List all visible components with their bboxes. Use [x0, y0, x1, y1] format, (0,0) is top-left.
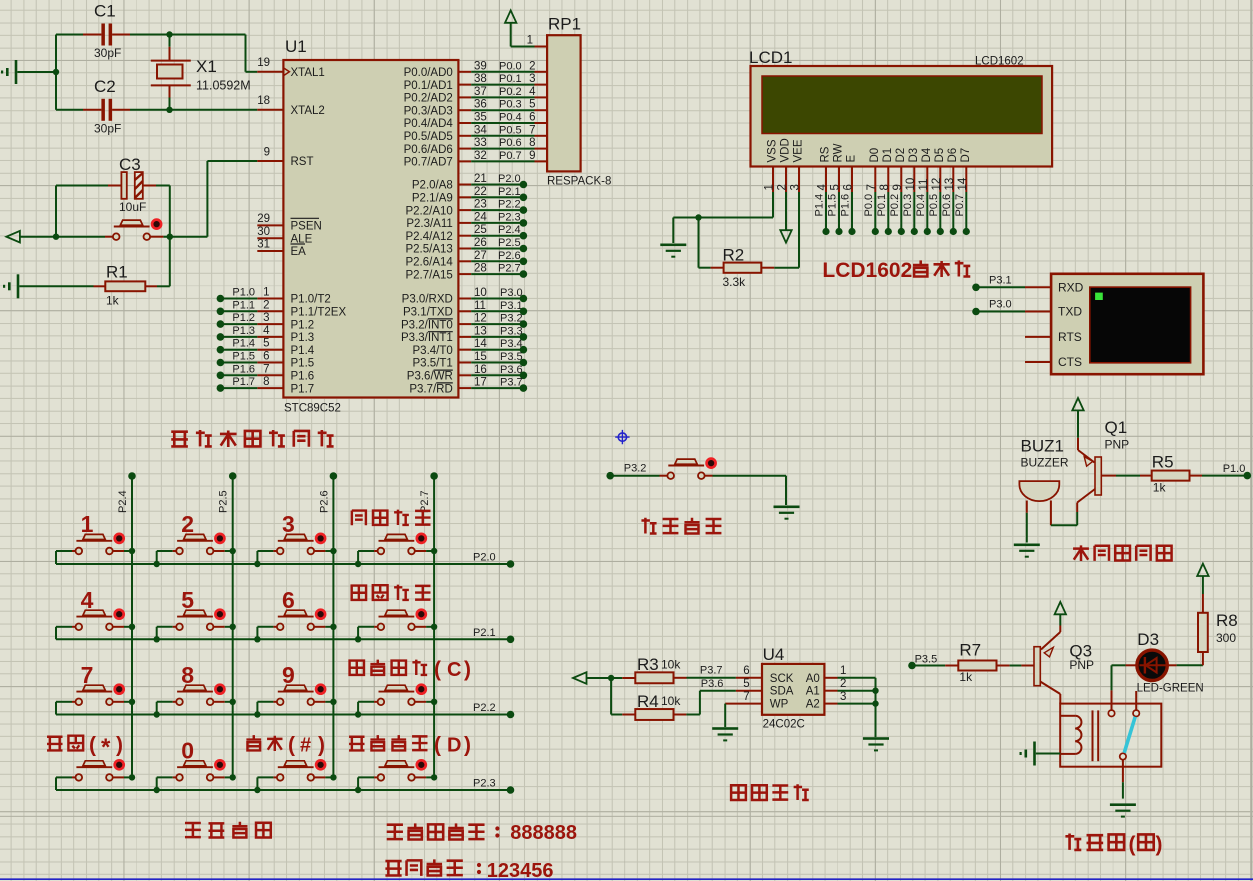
svg-text:7: 7 [866, 184, 878, 190]
svg-text:RW: RW [833, 143, 845, 162]
node button/column r2c4 [431, 624, 437, 630]
pin 7 P1.6 [220, 363, 314, 382]
svg-text:10uF: 10uF [119, 200, 146, 214]
svg-text:P1.5: P1.5 [232, 351, 255, 363]
node P3.0 [520, 295, 528, 303]
pin 1 P1.0 [220, 287, 330, 306]
svg-text:P1.7: P1.7 [232, 376, 255, 388]
svg-text:3.3k: 3.3k [723, 275, 747, 289]
svg-text:RTS: RTS [1058, 330, 1082, 344]
svg-text:P1.4: P1.4 [291, 345, 315, 357]
power (VDD down arrow) [780, 230, 791, 242]
svg-text:P0.7/AD7: P0.7/AD7 [404, 157, 453, 169]
ground (LCD VSS) [660, 244, 686, 247]
svg-text:2: 2 [529, 60, 535, 72]
node drop/bus r2c2 [154, 636, 160, 642]
node P2.2 [520, 206, 528, 214]
svg-text:5: 5 [743, 678, 749, 690]
svg-text:P2.1: P2.1 [473, 627, 496, 639]
svg-text:E: E [846, 155, 858, 163]
svg-text:U4: U4 [763, 645, 785, 664]
node P1.5 [835, 228, 842, 235]
node drop/bus r3c4 [355, 711, 361, 717]
svg-text:P3.2/INT0: P3.2/INT0 [401, 319, 453, 331]
svg-text:CTS: CTS [1058, 355, 1082, 369]
svg-text:17: 17 [474, 377, 487, 389]
svg-text:37: 37 [474, 86, 487, 98]
push button (reset) [105, 220, 163, 240]
svg-text:(: ( [434, 658, 441, 681]
svg-text:P1.3: P1.3 [291, 332, 315, 344]
svg-text:16: 16 [474, 364, 487, 376]
svg-text:D6: D6 [947, 148, 959, 163]
svg-text:38: 38 [474, 73, 487, 85]
wire P3.0 to TXD [976, 311, 1025, 313]
clock mark XTAL1 [283, 68, 289, 76]
svg-text:10: 10 [474, 287, 487, 299]
node button/column r2c1 [129, 624, 135, 630]
pin 31 EA [257, 239, 306, 259]
svg-text:30pF: 30pF [94, 46, 121, 60]
svg-text:P0.5/AD5: P0.5/AD5 [404, 131, 453, 143]
svg-text:P3.0/RXD: P3.0/RXD [402, 294, 453, 306]
svg-text:P1.5: P1.5 [291, 358, 315, 370]
resistor pack RP1 RESPACK-8 [547, 35, 581, 171]
wire P0.6 (LCD) [952, 192, 954, 232]
svg-text:19: 19 [257, 57, 270, 69]
wire D3 to R8 [1177, 664, 1203, 666]
pin 2 P1.1 [220, 299, 346, 318]
node button/column r2c3 [330, 624, 336, 630]
wire WP to gnd [724, 704, 726, 727]
svg-text:25: 25 [474, 224, 487, 236]
svg-text:(: ( [1129, 833, 1136, 856]
svg-text:9: 9 [282, 662, 295, 688]
node P2.3 [520, 219, 528, 227]
svg-text:15: 15 [474, 351, 487, 363]
svg-text:2: 2 [263, 299, 269, 311]
node P0.6 [950, 228, 957, 235]
wire C2 left [56, 109, 83, 111]
pin 38 P0.1 [404, 73, 548, 92]
node button right [167, 234, 173, 240]
svg-text:14: 14 [957, 177, 969, 190]
pin 8 D1 (LCD) [879, 148, 894, 192]
pin 15 P3.5 [413, 351, 524, 370]
ground (relay coil) [1033, 742, 1036, 766]
svg-text:P1.6: P1.6 [291, 371, 315, 383]
svg-text:EA: EA [291, 246, 307, 258]
svg-text:P2.3: P2.3 [473, 778, 496, 790]
svg-text:A1: A1 [806, 686, 820, 698]
node drop/bus r4c3 [254, 787, 260, 793]
svg-text:X1: X1 [196, 57, 217, 76]
wire R2 branch [698, 218, 700, 268]
svg-text:9: 9 [529, 150, 535, 162]
node P2.6 [520, 258, 528, 266]
svg-text:P2.0: P2.0 [498, 173, 521, 185]
led D3 LED-GREEN [1112, 630, 1204, 710]
svg-text:R1: R1 [106, 263, 128, 282]
label 矩阵键盘 [185, 822, 271, 838]
svg-text:14: 14 [474, 338, 487, 350]
svg-text:RXD: RXD [1058, 281, 1084, 295]
pin 6 P1.5 [220, 351, 314, 370]
svg-text:1: 1 [527, 35, 533, 47]
svg-text:P3.5: P3.5 [500, 351, 523, 363]
svg-text:P0.3: P0.3 [902, 194, 914, 217]
push button keypad r1c3 [257, 534, 333, 554]
node P1.1 [217, 308, 225, 316]
node P1.0 [217, 295, 225, 303]
wire P3.5 to R7 [912, 665, 945, 667]
wire buzzer to gnd [1026, 513, 1028, 543]
svg-text:P3.3: P3.3 [500, 325, 523, 337]
node P2.1 [520, 194, 528, 202]
svg-text:P0.2: P0.2 [499, 86, 522, 98]
svg-text:4: 4 [817, 184, 829, 191]
svg-text:5: 5 [529, 99, 535, 111]
svg-text:P0.0/AD0: P0.0/AD0 [404, 67, 453, 79]
push button keypad r4c1 [56, 760, 132, 780]
label 存储模块 [731, 784, 809, 800]
svg-text:P1.0/T2: P1.0/T2 [291, 294, 331, 306]
svg-text:6: 6 [263, 351, 269, 363]
svg-text:D: D [447, 735, 461, 757]
svg-text:8: 8 [181, 662, 194, 688]
node P2.0 [520, 181, 528, 189]
svg-text:P0.5: P0.5 [499, 124, 522, 136]
svg-text:LCD1: LCD1 [749, 48, 792, 67]
svg-text:P0.1: P0.1 [876, 194, 888, 217]
svg-text:11: 11 [918, 179, 930, 191]
svg-text:123456: 123456 [487, 860, 554, 881]
node P1.4 [217, 346, 225, 354]
ground (buzzer) [1014, 544, 1040, 547]
svg-text:18: 18 [257, 95, 270, 107]
node P3.0 [972, 308, 980, 316]
svg-text:R8: R8 [1216, 611, 1238, 630]
svg-text:P3.2: P3.2 [624, 463, 647, 475]
svg-text:P2.5: P2.5 [218, 490, 230, 513]
node P2.1 terminal [507, 636, 515, 644]
node X1 top [169, 35, 171, 47]
node drop/bus r3c2 [154, 711, 160, 717]
node button/column r1c2 [230, 548, 236, 554]
wire button drop r2c2 [156, 627, 158, 640]
push button keypad r2c3 [257, 610, 333, 630]
pin 10 P3.0 [402, 287, 524, 306]
svg-text:XTAL1: XTAL1 [291, 67, 325, 79]
node P3.7 [520, 384, 528, 392]
label 单片机最小系统 [171, 430, 333, 447]
svg-text:): ) [464, 658, 471, 681]
svg-text:10: 10 [905, 178, 917, 191]
svg-text:P3.6/WR: P3.6/WR [407, 371, 453, 383]
svg-text:4: 4 [81, 587, 94, 613]
pin 5 RW (LCD) [830, 143, 845, 192]
svg-text:P3.6: P3.6 [500, 364, 523, 376]
svg-text:5: 5 [263, 338, 269, 350]
svg-text:P3.6: P3.6 [701, 678, 724, 690]
pin 16 P3.6 [407, 364, 524, 383]
wire button to RST [163, 236, 207, 238]
svg-text:11.0592M: 11.0592M [196, 79, 251, 93]
pin 11 P3.1 [403, 300, 523, 319]
svg-text:P0.3/AD3: P0.3/AD3 [404, 105, 453, 117]
svg-text:LCD1602: LCD1602 [975, 56, 1024, 68]
svg-text:RS: RS [820, 146, 832, 162]
push button keypad r3c4 [358, 685, 434, 705]
wire keypad column P2.7 [433, 476, 435, 777]
svg-text:888888: 888888 [510, 822, 577, 844]
wire button drop r2c4 [357, 627, 359, 640]
node button/column r4c4 [431, 774, 437, 780]
wire button drop r2c1 [55, 627, 57, 640]
svg-text:P1.6: P1.6 [232, 363, 255, 375]
pin 14 P3.4 [413, 338, 524, 357]
pin 7 WP [725, 691, 788, 711]
svg-text:3: 3 [282, 511, 295, 537]
power (Q3) [1055, 602, 1066, 614]
svg-text:P3.1/TXD: P3.1/TXD [403, 307, 453, 319]
pin 5 SDA [736, 678, 794, 698]
pin 29 PSEN [257, 213, 322, 233]
pin 35 P0.4 [404, 112, 548, 131]
op-amp U1 body (STC89C52) [283, 60, 458, 398]
svg-text:P2.3/A11: P2.3/A11 [406, 218, 452, 230]
node button/column r2c2 [230, 624, 236, 630]
svg-text:D1: D1 [882, 148, 894, 163]
svg-text:(: ( [434, 734, 441, 757]
svg-text:C2: C2 [94, 77, 116, 96]
pin 13 P3.3 [401, 325, 523, 344]
svg-text:P0.4: P0.4 [915, 194, 927, 217]
svg-text:7: 7 [81, 662, 94, 688]
label 指纹触发 [641, 518, 721, 534]
svg-text:1: 1 [81, 511, 94, 537]
node drop/bus r3c3 [254, 711, 260, 717]
wire button drop r4c4 [357, 777, 359, 790]
wire P1.5 (LCD) [838, 192, 840, 232]
svg-text:): ) [1156, 833, 1163, 856]
svg-text:7: 7 [263, 363, 269, 375]
svg-text:39: 39 [474, 60, 487, 72]
svg-text:P2.6: P2.6 [498, 250, 521, 262]
pin 6 SCK [736, 665, 794, 685]
svg-text:P0.1/AD1: P0.1/AD1 [404, 80, 453, 92]
node P1.0 (buzzer) [1244, 472, 1252, 480]
wire R5 to P1.0 [1202, 475, 1247, 477]
relay contacts [1108, 710, 1139, 760]
svg-text:11: 11 [474, 300, 486, 312]
svg-text:P2.7: P2.7 [419, 490, 431, 513]
svg-text:P3.4: P3.4 [500, 338, 523, 350]
svg-text:33: 33 [474, 137, 487, 149]
svg-text:P2.4: P2.4 [117, 490, 129, 513]
svg-text:RP1: RP1 [548, 15, 581, 34]
pin 30 ALE [257, 226, 312, 246]
svg-text:P3.7: P3.7 [500, 377, 523, 389]
wire buzzer to Q1 collector [1051, 524, 1077, 526]
pin 10 D3 (LCD) [905, 148, 920, 192]
node P3.6 [520, 372, 528, 380]
wire button drop r1c3 [256, 551, 258, 564]
svg-text:STC89C52: STC89C52 [284, 403, 341, 415]
pin 2 A1 [806, 678, 847, 698]
svg-text:P0.6/AD6: P0.6/AD6 [404, 144, 453, 156]
pin 24 P2.3 [406, 211, 523, 230]
svg-text:R3: R3 [637, 655, 659, 674]
node X1 bottom [169, 98, 171, 110]
pin 25 P2.4 [405, 224, 523, 243]
node button/column r3c1 [129, 699, 135, 705]
wire R1 to button node [157, 285, 170, 287]
pin 12 D5 (LCD) [931, 148, 946, 192]
LCD screen [762, 76, 1042, 134]
node drop/bus r1c2 [154, 561, 160, 567]
svg-text:P3.1: P3.1 [500, 300, 523, 312]
push button keypad r2c4 [358, 610, 434, 630]
node P1.4 [822, 228, 829, 235]
wire keypad row bus P2.0 [56, 563, 511, 565]
push button keypad r4c3 [257, 760, 333, 780]
svg-text:1: 1 [840, 665, 846, 677]
svg-text:): ) [464, 734, 471, 757]
wire common to gnd [1122, 760, 1124, 782]
svg-text:P3.7: P3.7 [700, 665, 723, 677]
svg-text:VEE: VEE [793, 139, 805, 162]
svg-text:P3.4/T0: P3.4/T0 [413, 345, 453, 357]
svg-text:34: 34 [474, 124, 487, 136]
pin 36 P0.3 [404, 99, 548, 118]
svg-text:1k: 1k [1153, 481, 1167, 495]
wire P0.2 (LCD) [900, 192, 902, 232]
node VSS/R2 [695, 214, 701, 220]
resistor R3 [611, 655, 686, 683]
pin 39 P0.0 [404, 60, 548, 79]
svg-text:#: # [300, 735, 311, 757]
pin 18 XTAL2 [257, 95, 325, 117]
node drop/bus r2c4 [355, 636, 361, 642]
wire button drop r1c4 [357, 551, 359, 564]
wire C1 right to XTAL1 [130, 34, 246, 36]
power (R8) [1197, 564, 1208, 576]
pin 1 RP1 [511, 35, 547, 47]
wire P0.0 (LCD) [874, 192, 876, 232]
wire P0.4 (LCD) [926, 192, 928, 232]
node P1.3 [217, 333, 225, 341]
label 删除指纹 [352, 585, 431, 600]
svg-text:P0.0: P0.0 [863, 194, 875, 217]
svg-text:P2.6/A14: P2.6/A14 [405, 257, 453, 269]
wire gnd to coil [1036, 753, 1060, 755]
ground (WP) [712, 727, 738, 730]
svg-text:8: 8 [879, 184, 891, 190]
svg-text:P3.1: P3.1 [989, 275, 1012, 287]
svg-text:P3.2: P3.2 [500, 313, 523, 325]
svg-text:P1.1: P1.1 [232, 299, 255, 311]
svg-text:R2: R2 [723, 246, 745, 265]
svg-text:P2.0/A8: P2.0/A8 [412, 180, 453, 192]
pin 14 D7 (LCD) [957, 148, 972, 192]
pin 11 D4 (LCD) [918, 147, 933, 192]
pin 4 P1.3 [220, 325, 314, 344]
svg-text:5: 5 [181, 587, 194, 613]
svg-text:30pF: 30pF [94, 122, 121, 136]
crystal X1 [151, 47, 251, 98]
capacitor C2 [83, 77, 130, 136]
label 一键还原（C） [350, 658, 471, 681]
svg-text:1k: 1k [959, 670, 973, 684]
svg-text:P0.6: P0.6 [941, 194, 953, 217]
node column P2.7 top [430, 472, 438, 480]
resistor R8 [1198, 594, 1238, 652]
wire terminal to node [587, 677, 612, 679]
pin 21 P2.0 [412, 173, 524, 192]
wire P0.3 (LCD) [913, 192, 915, 232]
svg-text:21: 21 [474, 173, 487, 185]
wire C1 left [56, 34, 83, 36]
svg-text:XTAL2: XTAL2 [291, 105, 325, 117]
wire button drop r3c2 [156, 702, 158, 715]
node P0.5 [937, 228, 944, 235]
node P3.5 [520, 359, 528, 367]
svg-text:PNP: PNP [1105, 438, 1130, 452]
relay moving contact [1124, 717, 1135, 753]
label 蜂鸣器音效 [1073, 545, 1172, 561]
wire keypad column P2.4 [131, 476, 133, 777]
svg-text:3: 3 [790, 184, 802, 190]
ground (U4) [863, 737, 889, 740]
svg-text:BUZ1: BUZ1 [1021, 437, 1064, 456]
node drop/bus r1c4 [355, 561, 361, 567]
node button/column r1c4 [431, 548, 437, 554]
svg-text:P2.2: P2.2 [473, 702, 496, 714]
wire R4 branch [610, 678, 612, 715]
node button/column r4c3 [330, 774, 336, 780]
svg-text:P1.7: P1.7 [291, 383, 315, 395]
svg-text:BUZZER: BUZZER [1021, 455, 1069, 469]
svg-text:D3: D3 [1137, 630, 1159, 649]
label LCD1602显示屏 [822, 259, 970, 282]
svg-text:WP: WP [770, 699, 789, 711]
wire gnd to R1 [19, 285, 93, 287]
pin RTS (terminal) [1025, 330, 1082, 344]
node button/column r1c3 [330, 548, 336, 554]
svg-text:C3: C3 [119, 155, 141, 174]
svg-text:36: 36 [474, 99, 487, 111]
svg-text:23: 23 [474, 199, 487, 211]
node P1.6 [217, 372, 225, 380]
wire terminal to button [20, 236, 105, 238]
node P2.7 [520, 270, 528, 278]
svg-text:5: 5 [830, 184, 842, 190]
svg-text:P0.2: P0.2 [889, 194, 901, 217]
wire button drop r4c1 [55, 777, 57, 790]
node button/column r3c2 [230, 699, 236, 705]
node P0.2 [898, 228, 905, 235]
node drop/bus r4c2 [154, 787, 160, 793]
node P3.2 [520, 320, 528, 328]
svg-text:28: 28 [474, 263, 487, 275]
svg-text:2: 2 [181, 511, 194, 537]
push button (fingerprint) [660, 459, 716, 479]
svg-text:6: 6 [282, 587, 295, 613]
svg-text:300: 300 [1216, 631, 1236, 645]
svg-text:R5: R5 [1152, 452, 1174, 471]
wire button drop r3c1 [55, 702, 57, 715]
